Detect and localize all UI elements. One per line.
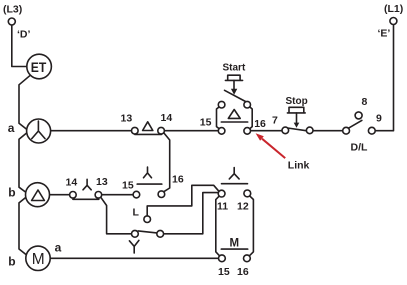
svg-text:M: M [32,251,45,268]
svg-text:Link: Link [288,160,310,172]
coil ET [27,54,52,79]
svg-text:(L3): (L3) [3,4,22,16]
wire row b: contact 13 to contact 15 [101,194,134,196]
wire selector to right bus and terminal E [374,25,394,131]
svg-text:14: 14 [161,112,173,124]
svg-text:Start: Start [223,63,246,74]
svg-text:15: 15 [122,180,134,192]
svg-text:‘D’: ‘D’ [17,29,31,41]
wire start 16 to stop [249,130,283,132]
wire left bus from terminal D to ET [12,25,27,67]
svg-text:14: 14 [66,177,78,189]
svg-text:13: 13 [121,113,133,125]
wire row M: coil M to M contact 15 [51,257,220,259]
stop pushbutton [282,107,313,133]
contact M 15-16 [219,249,251,262]
terminal (L1) 'E' [390,18,397,25]
contact 11-12 wye [218,168,251,198]
wire from terminal L up and over to contact 11 [147,185,218,216]
terminal L [144,216,151,223]
svg-text:12: 12 [237,201,249,213]
wire contact 11 down to M contact 15 [216,196,220,256]
wire row a: contact 14 to start button [163,130,220,132]
svg-text:8: 8 [362,96,368,108]
wire stop to selector D/L [312,130,344,132]
switch Y (row b lower branch) [129,230,163,253]
svg-text:(L1): (L1) [384,3,403,15]
start button arrow [231,89,237,95]
contact 13-14 delta (row a) [132,122,165,135]
wire contact 12 down to M contact 16 [250,196,254,256]
wire left bus coil a to coil b [19,133,26,192]
start pushbutton [217,75,253,134]
svg-text:ET: ET [31,59,47,75]
svg-text:b: b [8,254,15,268]
svg-text:D/L: D/L [351,141,369,153]
svg-text:11: 11 [217,201,228,213]
wire row a branch down to contact 16 of row b [164,133,170,192]
svg-text:M: M [230,237,240,249]
wire left bus ET to coil a [19,75,30,129]
red arrow to link [256,133,286,158]
svg-text:15: 15 [218,266,230,278]
wire row b: coil b to contact 14 [49,194,71,196]
wire switch Y to contact 11 [163,193,219,234]
wire left bus coil b to coil M [19,197,27,255]
svg-text:15: 15 [200,117,212,129]
coil M (main contactor) [26,246,50,270]
coil a (star contactor) [27,119,51,143]
svg-text:7: 7 [272,115,278,127]
svg-text:9: 9 [376,113,382,125]
svg-text:a: a [55,240,62,254]
svg-text:16: 16 [237,266,249,278]
svg-text:b: b [8,186,15,200]
wire branch from 13 down to switch Y [101,197,132,234]
contact 14-13 wye (row b) [70,179,102,199]
selector switch D/L [343,112,375,134]
svg-text:‘E’: ‘E’ [378,28,391,40]
wire row a: coil a to contact 13 [51,130,133,132]
svg-text:13: 13 [96,176,108,188]
terminal (L3) 'D' [8,18,15,25]
svg-text:Stop: Stop [286,96,308,107]
coil b (delta contactor) [26,183,50,207]
stop button arrow [294,123,300,128]
contact 15-16 wye (row b) [133,167,165,198]
svg-text:16: 16 [172,174,184,186]
svg-text:a: a [8,121,15,135]
svg-text:16: 16 [254,118,266,130]
svg-text:L: L [133,207,140,219]
